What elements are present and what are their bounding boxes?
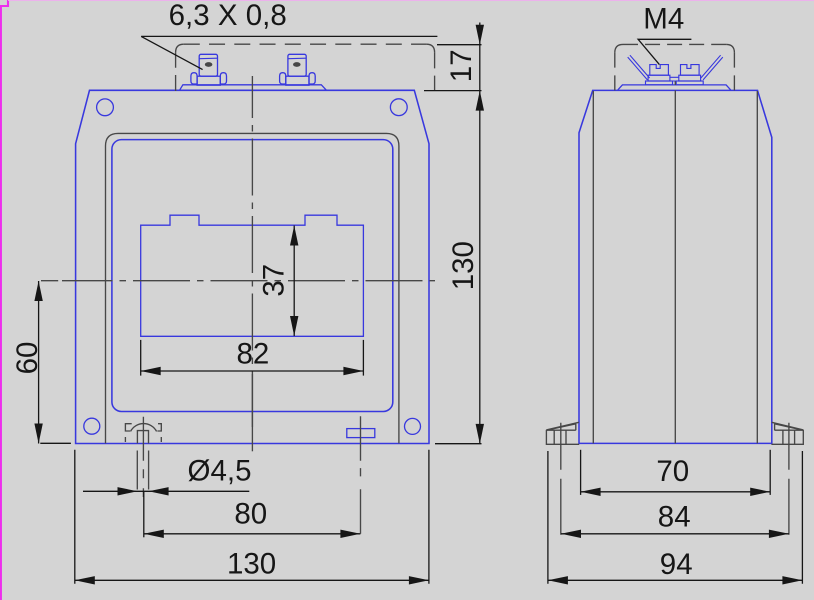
front terminal base plate	[180, 85, 327, 91]
svg-text:37: 37	[257, 264, 290, 297]
side left screw head	[650, 65, 669, 76]
sheet frame magenta top edge	[8, 0, 814, 1]
dim dia 4,5 line	[83, 490, 249, 492]
arrow 17 bottom / 130 top	[476, 91, 484, 111]
front window outer gray wall	[106, 133, 399, 443]
front corner hole top-right	[390, 99, 407, 116]
front left foot slot bracket left lower dash	[124, 437, 126, 442]
dim 94 right extension	[801, 451, 803, 584]
front right faston tab blade	[288, 54, 306, 76]
sheet frame magenta left edge	[1, 0, 8, 600]
svg-text:6,3 X 0,8: 6,3 X 0,8	[169, 0, 287, 32]
side dashed clearance box top-left corner	[615, 44, 623, 52]
side dashed clearance box top edge	[623, 43, 726, 45]
svg-text:82: 82	[236, 337, 269, 370]
side right screw base	[676, 81, 703, 85]
svg-text:130: 130	[447, 241, 480, 290]
dim 80 left extension	[143, 491, 145, 537]
side right flange slot centerline	[788, 423, 790, 538]
svg-text:60: 60	[11, 342, 44, 375]
arrow 130b right	[409, 576, 429, 584]
arrow dia45 left	[118, 487, 138, 495]
side right screw head	[681, 65, 700, 76]
front horizontal centerline extension to 60 dim	[41, 280, 58, 282]
dim 130 bottom right extension	[428, 450, 430, 584]
side view body outline	[579, 90, 772, 443]
side inner wall left	[592, 91, 594, 443]
front right tab right ear	[309, 73, 315, 84]
dim 60 bottom extension	[40, 442, 71, 444]
front corner hole bottom-left	[84, 418, 100, 434]
arrow 37 bottom	[290, 316, 298, 336]
dim 94 line	[548, 579, 803, 581]
front left foot slot walls	[137, 431, 148, 444]
front dashed clearance box top edge	[184, 43, 427, 45]
front right foot rectangle	[347, 429, 375, 438]
front vertical centerline	[251, 76, 253, 427]
arrow 84 left	[561, 530, 581, 538]
side left flange wedge	[546, 422, 579, 430]
front left foot slot walls below body	[137, 451, 148, 490]
arrow 70 left	[581, 488, 601, 496]
dim 80 line	[144, 533, 361, 535]
dim 130 bottom left extension	[74, 450, 76, 584]
dim 94 left extension	[547, 451, 549, 584]
front left tab left ear	[191, 73, 197, 84]
arrow 82 left	[141, 367, 161, 375]
side left flange outline	[546, 430, 579, 444]
arrow 17 top	[476, 25, 484, 45]
dim 17/130 shared extension at body top	[424, 90, 482, 92]
dim 84 line	[561, 533, 789, 535]
dim 70 right extension	[769, 450, 771, 495]
arrow 82 right	[343, 367, 363, 375]
front left foot slot centerline	[142, 417, 144, 497]
front view body outline	[76, 90, 429, 443]
svg-text:Ø4,5: Ø4,5	[188, 455, 252, 488]
side left screw collar	[648, 75, 670, 81]
side dashed clearance box right edge	[733, 53, 735, 91]
side case parting line	[674, 90, 676, 443]
arrow dia45 right	[149, 487, 169, 495]
side terminal bridge	[670, 77, 679, 81]
arrow 80 left	[144, 530, 164, 538]
front right tab crimp dot	[294, 63, 300, 66]
side left screw base	[646, 81, 673, 85]
arrow 37 top	[290, 226, 298, 246]
front left foot slot bracket left	[125, 424, 131, 431]
dim 82 line	[141, 370, 364, 372]
front left faston tab blade	[199, 54, 217, 76]
dim 130 bottom extension	[435, 443, 482, 445]
side right flange outline	[771, 430, 803, 444]
front dashed clearance box left edge	[175, 52, 177, 91]
front right tab base box	[286, 76, 309, 85]
front right tab left ear	[280, 73, 286, 84]
dim 130 bottom line	[75, 579, 429, 581]
front corner hole bottom-right	[405, 418, 421, 434]
front corner hole top-left	[97, 99, 114, 116]
svg-text:94: 94	[660, 548, 693, 581]
side plate center seam	[674, 81, 676, 85]
leader line 6,3x0,8	[141, 36, 437, 69]
dim 82 right extension	[362, 340, 364, 376]
arrow 60 top	[34, 281, 42, 301]
side right screw collar	[679, 75, 701, 81]
front dashed clearance box top-right corner	[426, 44, 434, 52]
arrow 94 left	[548, 576, 568, 584]
arrow 130 bottom	[476, 424, 484, 444]
side right flange slot walls	[783, 430, 795, 444]
front dashed clearance box right edge	[434, 52, 436, 91]
side left flange slot centerline	[560, 423, 562, 538]
front right tab tip face line	[288, 57, 306, 60]
leader line M4	[638, 39, 691, 64]
arrow 70 right	[750, 488, 770, 496]
dim 70 line	[581, 491, 771, 493]
arrow 80 right	[340, 530, 360, 538]
front left tab right ear	[220, 73, 226, 84]
front horizontal centerline	[62, 280, 435, 282]
side left flange slot walls	[554, 430, 566, 444]
front right foot centerline	[360, 416, 362, 534]
svg-text:130: 130	[227, 548, 276, 581]
front left foot slot bracket right lower dash	[160, 437, 162, 442]
dim 70 left extension	[580, 450, 582, 495]
dim 37 line	[293, 226, 295, 337]
arrow 60 bottom	[34, 424, 42, 444]
side dashed clearance box top-right corner	[726, 44, 734, 52]
svg-text:70: 70	[656, 455, 689, 488]
svg-text:M4: M4	[643, 3, 684, 36]
arrow 130b left	[75, 576, 95, 584]
side inner wall right	[756, 91, 758, 443]
dim 82 left extension	[140, 340, 142, 376]
side terminal base plate	[618, 85, 731, 90]
svg-text:17: 17	[445, 49, 478, 82]
front left foot slot arc	[131, 424, 157, 432]
front dashed clearance box top-left corner	[176, 44, 184, 52]
side dashed clearance box left edge	[614, 53, 616, 91]
front window notched core rectangle 82x37	[141, 215, 364, 336]
side right screwdriver blade	[701, 55, 723, 80]
front left foot slot bracket right	[157, 424, 161, 431]
front left tab crimp dot	[206, 63, 212, 66]
dim 17 top extension	[437, 44, 482, 46]
side left screwdriver blade	[628, 55, 650, 80]
svg-text:80: 80	[234, 497, 267, 530]
front left tab base box	[197, 76, 220, 85]
arrow 94 right	[782, 576, 802, 584]
side right flange wedge	[772, 422, 804, 430]
front left tab tip face line	[199, 57, 217, 60]
arrow 84 right	[769, 530, 789, 538]
dim 17/130 vertical line	[479, 23, 481, 444]
svg-text:84: 84	[658, 501, 691, 534]
front window inner blue rounded rect	[112, 140, 393, 412]
front vertical centerline lower solid part	[251, 374, 253, 451]
dim 60 line	[38, 281, 40, 444]
